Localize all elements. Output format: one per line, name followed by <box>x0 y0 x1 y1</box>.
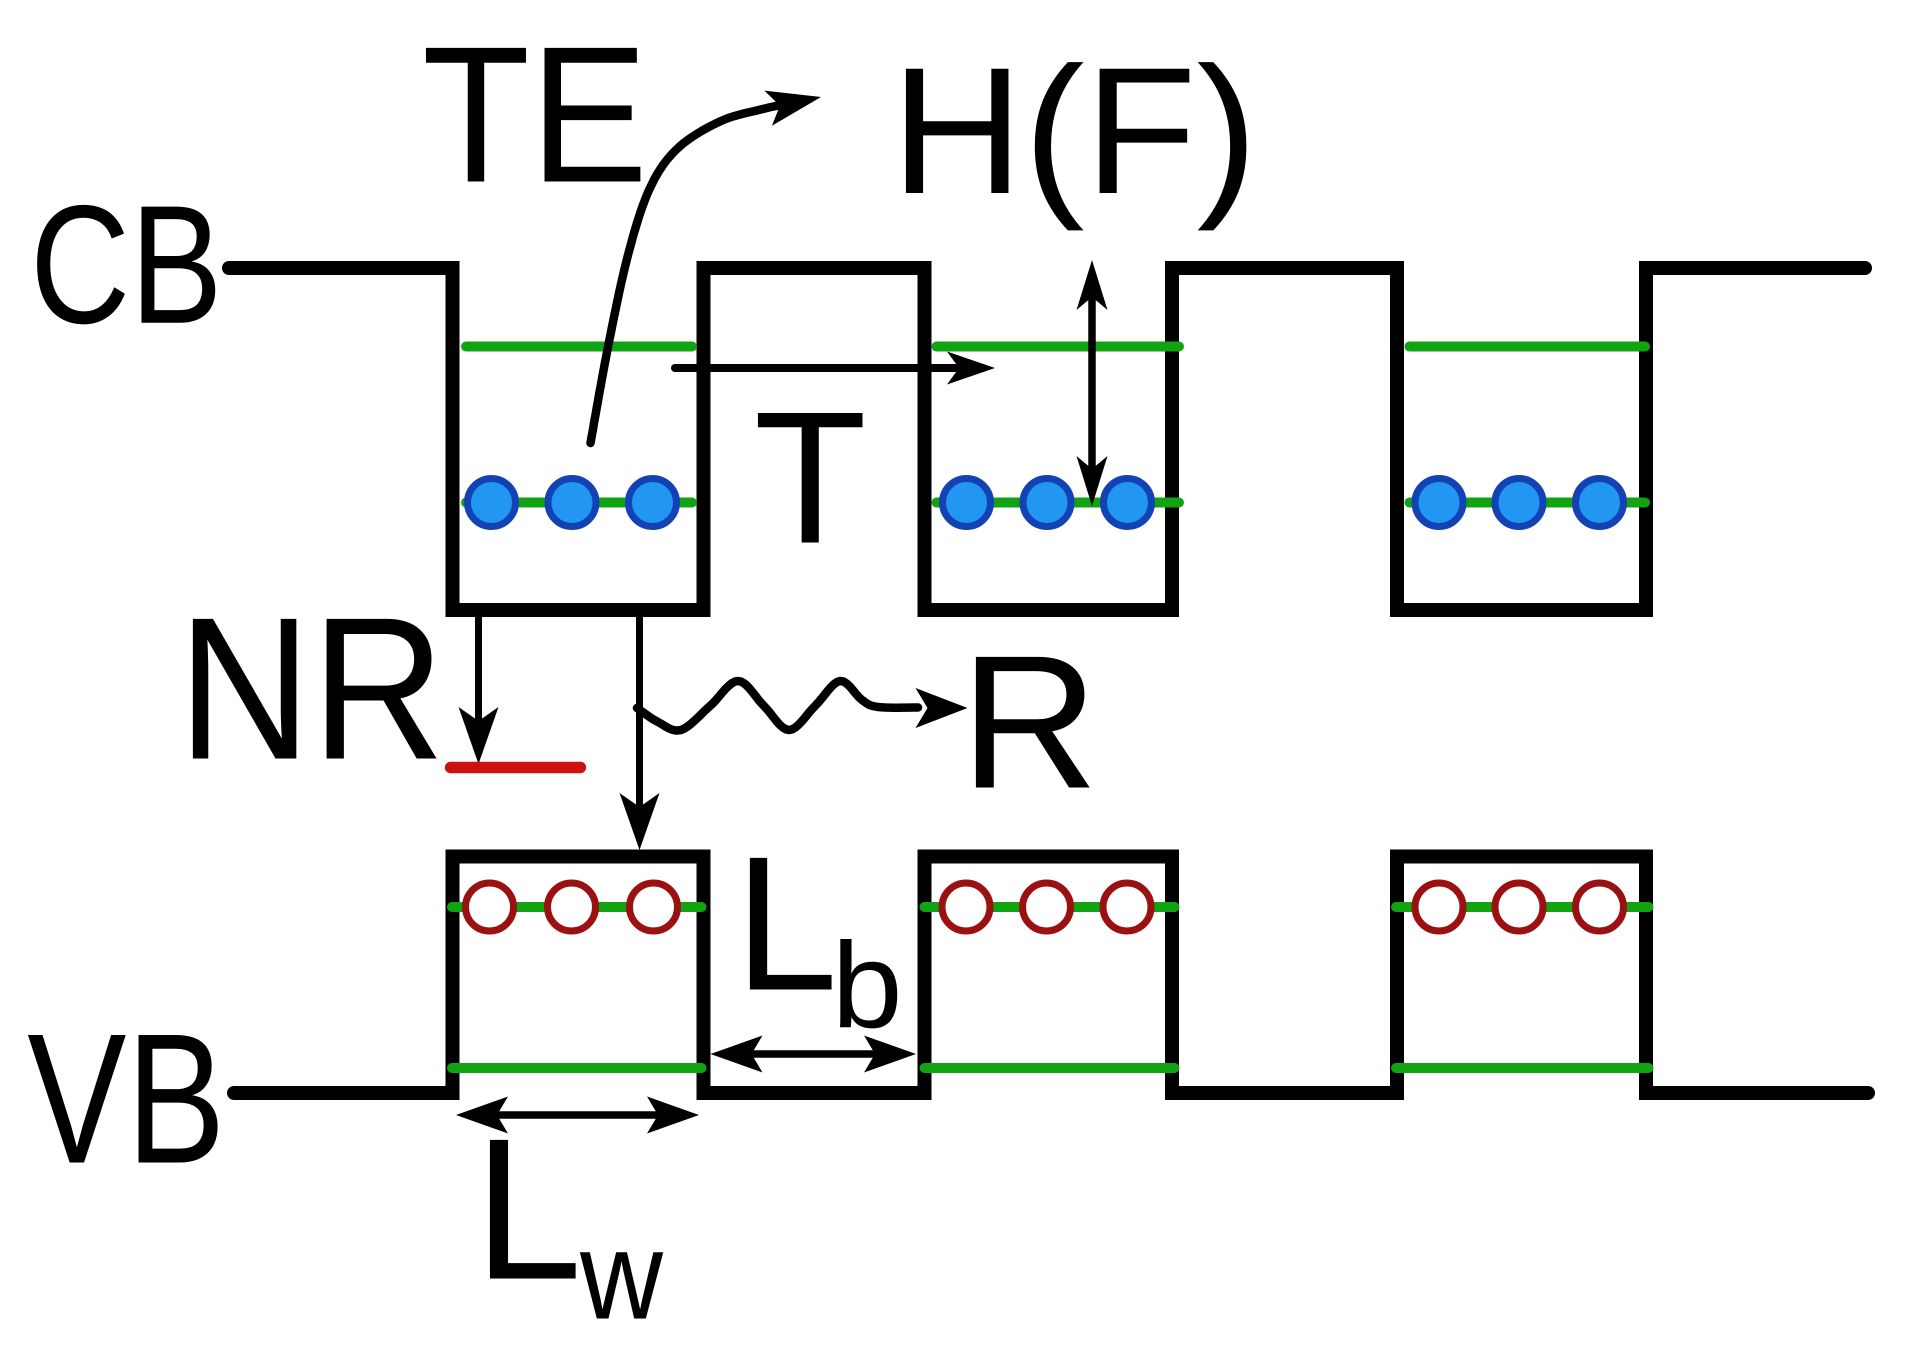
svg-text:L: L <box>735 817 838 1030</box>
energy level e2 well 1 (green) <box>466 342 692 352</box>
energy level e1 well 1 (green) <box>466 498 692 508</box>
svg-text:w: w <box>579 1205 664 1345</box>
electron e1 (blue circle) <box>468 479 516 527</box>
radiative recombination down arrow <box>636 611 643 812</box>
hole h6 (dark red open circle) <box>1103 883 1151 931</box>
hole h7 (dark red open circle) <box>1415 883 1463 931</box>
hole h8 (dark red open circle) <box>1495 883 1543 931</box>
hole level hh1 well 3 (green) <box>1396 902 1649 912</box>
electron e8 (blue circle) <box>1495 479 1543 527</box>
T tunneling arrow <box>675 364 963 372</box>
TE thermal escape curved arrow <box>591 105 785 444</box>
hole h9 (dark red open circle) <box>1576 883 1624 931</box>
svg-text:H(F): H(F) <box>891 29 1258 231</box>
electron e2 (blue circle) <box>548 479 596 527</box>
H(F) barrier height double arrow <box>1088 295 1096 472</box>
electron e4 (blue circle) <box>943 479 991 527</box>
hole level lh1 well 3 (green) <box>1396 1063 1649 1073</box>
svg-text:VB: VB <box>27 995 225 1203</box>
valence band VB profile line <box>234 857 1868 1094</box>
hole level hh1 well 1 (green) <box>452 902 702 912</box>
hole level lh1 well 1 (green) <box>452 1063 702 1073</box>
svg-text:NR: NR <box>178 576 445 803</box>
energy level e1 well 2 (green) <box>937 498 1180 508</box>
electron e3 (blue circle) <box>629 479 677 527</box>
electron e6 (blue circle) <box>1104 479 1152 527</box>
Lw well width double arrow <box>488 1111 668 1119</box>
energy level e2 well 2 (green) <box>937 342 1180 352</box>
electron e5 (blue circle) <box>1023 479 1071 527</box>
electron e7 (blue circle) <box>1415 479 1463 527</box>
Lb barrier width double arrow <box>742 1050 882 1058</box>
hole level hh1 well 2 (green) <box>925 902 1175 912</box>
hole h4 (dark red open circle) <box>942 883 990 931</box>
energy level e1 well 3 (green) <box>1410 498 1646 508</box>
svg-text:b: b <box>832 918 903 1054</box>
svg-text:R: R <box>960 616 1098 828</box>
svg-text:L: L <box>474 1096 582 1321</box>
energy level e2 well 3 (green) <box>1410 342 1646 352</box>
R photon wavy arrow <box>637 681 918 731</box>
NR non-radiative arrow <box>475 611 482 728</box>
svg-text:T: T <box>754 372 867 583</box>
hole h1 (dark red open circle) <box>466 883 514 931</box>
svg-text:CB: CB <box>30 170 222 359</box>
hole h3 (dark red open circle) <box>630 883 678 931</box>
hole h5 (dark red open circle) <box>1023 883 1071 931</box>
hole h2 (dark red open circle) <box>548 883 596 931</box>
NR trap level red line <box>451 762 581 773</box>
conduction band CB profile line <box>229 268 1865 610</box>
electron e9 (blue circle) <box>1576 479 1624 527</box>
hole level lh1 well 2 (green) <box>925 1063 1175 1073</box>
svg-text:TE: TE <box>422 7 648 223</box>
